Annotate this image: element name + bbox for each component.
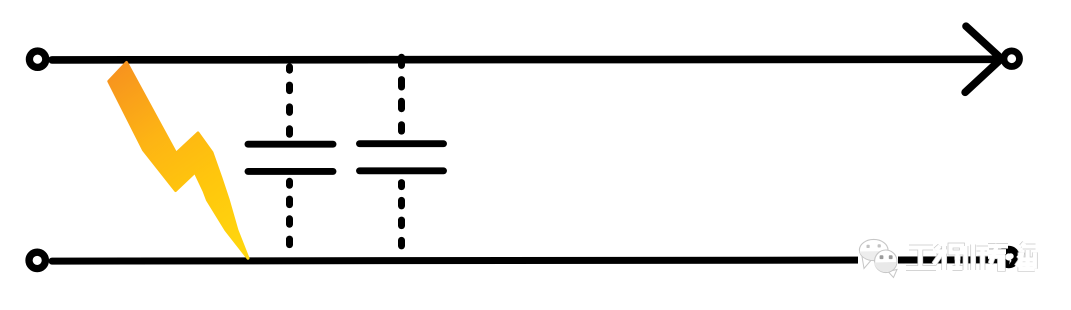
top wire	[52, 55, 996, 63]
capacitor C2 plates	[360, 144, 444, 171]
capacitor C1 plates	[248, 144, 333, 171]
capacitor C1 bottom lead (dashed wire)	[286, 181, 293, 244]
terminal J2 (top-right)	[1004, 51, 1020, 67]
bottom wire	[52, 260, 999, 261]
terminal J1 (top-left)	[29, 51, 45, 67]
lightning bolt (surge strike)	[109, 63, 248, 259]
capacitor C1 top lead (dashed wire)	[286, 67, 293, 134]
capacitor C2 top lead (dashed wire)	[398, 57, 405, 131]
arrowhead (top-right)	[965, 26, 1001, 92]
terminal J3 (bottom-left)	[29, 252, 45, 268]
watermark text 海 (white with gray outline)	[1017, 243, 1036, 269]
terminal J4 (bottom-right, under watermark text)	[1001, 250, 1016, 265]
capacitor C2 bottom lead (dashed wire)	[398, 183, 405, 246]
terminal J4 white hole + comma highlight	[1008, 253, 1014, 266]
watermark WeChat logo	[858, 239, 898, 277]
